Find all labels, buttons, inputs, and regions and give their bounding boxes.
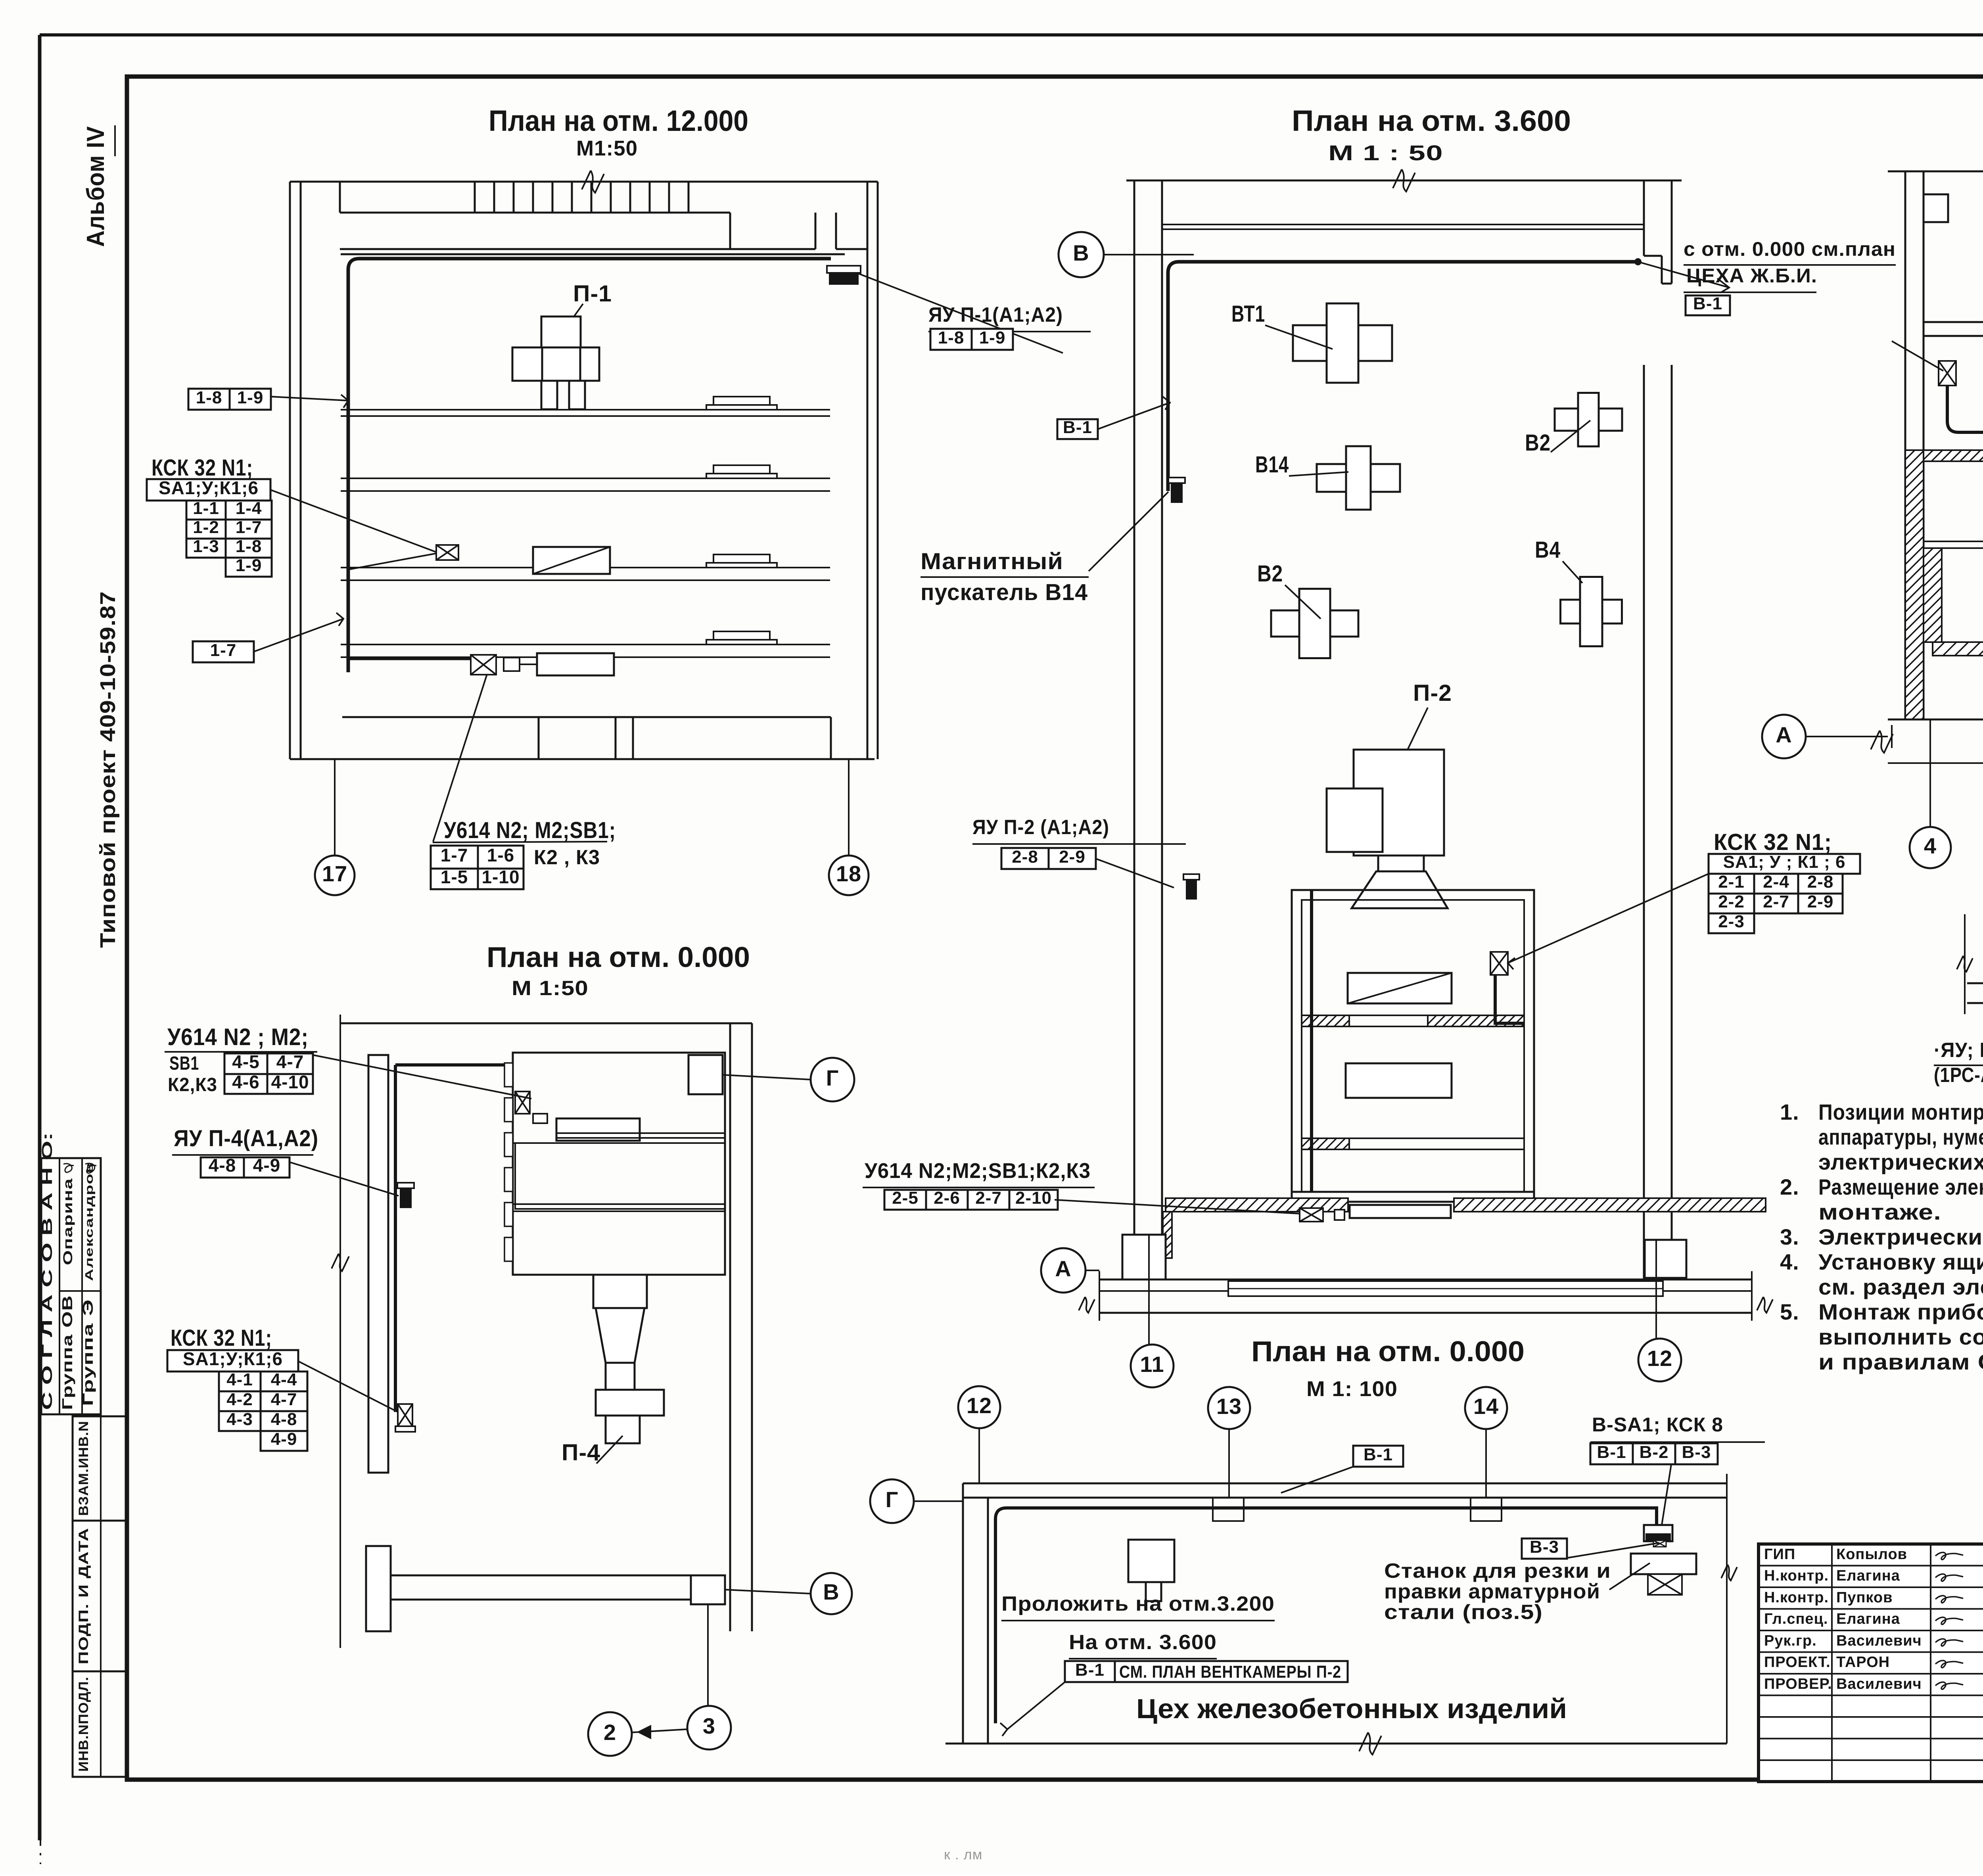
svg-text:С О Г Л А С О В А Н О:: С О Г Л А С О В А Н О: (39, 1132, 55, 1410)
svg-text:П-2: П-2 (1413, 680, 1452, 706)
svg-text:12: 12 (967, 1393, 992, 1418)
svg-text:4-3: 4-3 (226, 1410, 253, 1429)
svg-text:В14: В14 (1255, 452, 1289, 478)
svg-text:см. раздел электрооборудования: см. раздел электрооборудования. (1818, 1274, 1983, 1299)
svg-text:1-5: 1-5 (441, 867, 468, 887)
svg-text:В-2: В-2 (1640, 1442, 1669, 1462)
svg-text:К2,К3: К2,К3 (168, 1074, 217, 1095)
svg-text:Г: Г (886, 1487, 899, 1512)
svg-text:2-2: 2-2 (1718, 892, 1745, 911)
svg-text:SA1;У;К1;6: SA1;У;К1;6 (159, 478, 259, 498)
svg-text:стали (поз.5): стали (поз.5) (1384, 1601, 1543, 1624)
svg-text:5.: 5. (1780, 1299, 1799, 1324)
svg-text:Елагина: Елагина (1836, 1567, 1900, 1584)
svg-text:1.: 1. (1780, 1099, 1799, 1124)
svg-text:Н.контр.: Н.контр. (1764, 1589, 1829, 1606)
svg-text:Пупков: Пупков (1836, 1589, 1893, 1606)
svg-text:М 1: 100: М 1: 100 (1306, 1377, 1398, 1401)
svg-text:В-1: В-1 (1693, 294, 1722, 313)
svg-text:ЯУ П-1(А1;А2): ЯУ П-1(А1;А2) (928, 303, 1063, 326)
svg-text:4-8: 4-8 (209, 1155, 236, 1176)
svg-text:ПРОЕКТ.: ПРОЕКТ. (1764, 1654, 1831, 1671)
svg-text:Г: Г (826, 1065, 839, 1090)
svg-text:В-1: В-1 (1597, 1442, 1626, 1462)
svg-text:18: 18 (836, 861, 861, 886)
svg-text:электрических проводок лист: электрических проводок лист А-36 ; А-37. (1818, 1149, 1983, 1174)
svg-text:3: 3 (703, 1713, 715, 1738)
svg-text:В-1: В-1 (1063, 418, 1092, 437)
svg-text:4-6: 4-6 (232, 1072, 259, 1092)
svg-text:2-5: 2-5 (892, 1188, 919, 1208)
svg-text:2-3: 2-3 (1718, 912, 1745, 931)
svg-text:Гл.спец.: Гл.спец. (1764, 1611, 1828, 1627)
svg-text:В-3: В-3 (1682, 1442, 1711, 1462)
svg-text:13: 13 (1216, 1394, 1242, 1419)
svg-text:SA1; У ; К1 ; 6: SA1; У ; К1 ; 6 (1723, 852, 1846, 872)
svg-text:1-1: 1-1 (193, 499, 219, 518)
svg-text:В4: В4 (1535, 537, 1561, 563)
svg-text:План на отм. 0.000: План на отм. 0.000 (487, 942, 750, 973)
svg-text:Станок для резки и: Станок для резки и (1384, 1559, 1611, 1583)
svg-text:выполнить согласно строитель: выполнить согласно строительным нормам (1818, 1324, 1983, 1349)
svg-text:К2 , К3: К2 , К3 (534, 846, 600, 869)
svg-text:SB1: SB1 (169, 1053, 199, 1074)
svg-text:А: А (1776, 722, 1792, 747)
svg-text:монтаже.: монтаже. (1818, 1199, 1941, 1224)
svg-text:2-8: 2-8 (1012, 847, 1038, 867)
svg-text:4-7: 4-7 (276, 1051, 304, 1072)
svg-text:12: 12 (1647, 1346, 1672, 1371)
svg-text:ВЗАМ.ИНВ.N: ВЗАМ.ИНВ.N (76, 1421, 91, 1516)
svg-text:4-1: 4-1 (226, 1370, 253, 1389)
svg-text:Александров: Александров (83, 1162, 95, 1281)
svg-text:2-8: 2-8 (1807, 872, 1834, 892)
svg-text:П-4: П-4 (562, 1440, 600, 1466)
svg-text:В: В (823, 1579, 839, 1604)
svg-text:1-2: 1-2 (193, 518, 219, 537)
svg-text:Альбом IV: Альбом IV (82, 126, 109, 247)
svg-text:4-2: 4-2 (226, 1390, 253, 1409)
svg-text:Василевич: Василевич (1836, 1632, 1922, 1649)
svg-text:Опарина: Опарина (61, 1178, 75, 1265)
svg-text:2-9: 2-9 (1059, 847, 1085, 867)
svg-text:Позиции монтируемых приборов о: Позиции монтируемых приборов обозначение… (1818, 1099, 1983, 1124)
svg-text:4-10: 4-10 (271, 1072, 309, 1092)
svg-text:1-7: 1-7 (236, 518, 262, 537)
svg-text:17: 17 (322, 861, 347, 886)
svg-text:2-10: 2-10 (1015, 1188, 1052, 1208)
svg-text:Цех железобетонных изделий: Цех железобетонных изделий (1136, 1693, 1567, 1724)
svg-text:Копылов: Копылов (1836, 1546, 1907, 1563)
svg-text:М 1 : 50: М 1 : 50 (1328, 141, 1443, 165)
svg-text:КСК 32 N1;: КСК 32 N1; (171, 1325, 272, 1351)
svg-text:Типовой проект 409-10-59.87: Типовой проект 409-10-59.87 (96, 591, 120, 948)
svg-text:к . лм: к . лм (944, 1846, 983, 1863)
svg-text:2-7: 2-7 (975, 1188, 1002, 1208)
svg-text:ПОДП. И ДАТА: ПОДП. И ДАТА (76, 1528, 91, 1665)
svg-text:СМ. ПЛАН ВЕНТКАМЕРЫ П-2: СМ. ПЛАН ВЕНТКАМЕРЫ П-2 (1119, 1662, 1341, 1682)
svg-text:Рук.гр.: Рук.гр. (1764, 1632, 1817, 1649)
svg-text:П-1: П-1 (573, 281, 612, 307)
svg-text:4-5: 4-5 (232, 1051, 259, 1072)
svg-text:1-7: 1-7 (210, 641, 237, 660)
svg-text:ЯУ П-4(А1,А2): ЯУ П-4(А1,А2) (174, 1126, 318, 1151)
svg-text:Елагина: Елагина (1836, 1611, 1900, 1627)
svg-text:4.: 4. (1780, 1249, 1799, 1274)
svg-text:У614 N2; М2;SB1;: У614 N2; М2;SB1; (444, 817, 616, 843)
svg-text:правки арматурной: правки арматурной (1384, 1580, 1600, 1603)
svg-text:План на отм. 0.000: План на отм. 0.000 (1251, 1336, 1525, 1368)
svg-text:(1РС-А; 2РС-А): (1РС-А; 2РС-А) (1934, 1064, 1983, 1087)
svg-text:В-1: В-1 (1364, 1445, 1393, 1464)
svg-text:Василевич: Василевич (1836, 1676, 1922, 1692)
svg-text:ЦЕХА Ж.Б.И.: ЦЕХА Ж.Б.И. (1686, 265, 1817, 287)
svg-text:4-9: 4-9 (253, 1155, 280, 1176)
svg-text:1-4: 1-4 (236, 499, 262, 518)
svg-text:ПРОВЕР.: ПРОВЕР. (1764, 1676, 1832, 1692)
svg-text:SA1;У;К1;6: SA1;У;К1;6 (183, 1348, 283, 1369)
svg-text:4: 4 (1924, 833, 1937, 858)
svg-text:У614 N2 ; М2;: У614 N2 ; М2; (167, 1024, 309, 1050)
svg-text:М 1:50: М 1:50 (512, 977, 589, 1000)
svg-text:2.: 2. (1780, 1174, 1799, 1199)
svg-text:ТАРОН: ТАРОН (1836, 1654, 1890, 1671)
svg-text:1-8: 1-8 (196, 388, 222, 407)
svg-text:4-7: 4-7 (271, 1390, 297, 1409)
svg-text:ИНВ.NПОДЛ.: ИНВ.NПОДЛ. (76, 1677, 91, 1772)
svg-text:2-1: 2-1 (1718, 872, 1745, 892)
svg-text:ГИП: ГИП (1764, 1546, 1795, 1563)
svg-text:В: В (1073, 240, 1089, 265)
svg-text:2: 2 (604, 1720, 616, 1745)
svg-text:А: А (1055, 1256, 1071, 1281)
svg-text:·ЯУ; Р1; Р2: ·ЯУ; Р1; Р2 (1934, 1039, 1983, 1062)
svg-text:ВТ1: ВТ1 (1231, 301, 1265, 327)
svg-text:пускатель В14: пускатель В14 (921, 579, 1088, 605)
svg-text:КСК 32 N1;: КСК 32 N1; (1714, 829, 1832, 855)
svg-text:В2: В2 (1525, 430, 1551, 456)
svg-text:ЯУ П-2 (А1;А2): ЯУ П-2 (А1;А2) (972, 816, 1109, 839)
svg-text:1-8: 1-8 (938, 328, 965, 347)
svg-text:Монтаж приборов и средств авто: Монтаж приборов и средств автоматизации (1818, 1299, 1983, 1324)
svg-text:и правилам СН и П3. 05.07-85.: и правилам СН и П3. 05.07-85. (1818, 1349, 1983, 1374)
svg-text:В-1: В-1 (1075, 1660, 1105, 1680)
svg-text:1-3: 1-3 (193, 537, 219, 556)
svg-text:1-9: 1-9 (979, 328, 1006, 347)
svg-text:Установку ящиков ЯУ и магнитно: Установку ящиков ЯУ и магнитного пускате… (1818, 1249, 1983, 1274)
svg-text:План на отм. 12.000: План на отм. 12.000 (489, 104, 748, 137)
svg-text:2-4: 2-4 (1763, 872, 1789, 892)
svg-text:2-6: 2-6 (934, 1188, 960, 1208)
svg-text:Группа ОВ: Группа ОВ (59, 1295, 75, 1410)
svg-text:1-10: 1-10 (481, 867, 520, 887)
svg-text:План на отм. 3.600: План на отм. 3.600 (1292, 104, 1571, 137)
svg-text:Размещение электрических прово: Размещение электрических проводок уточни… (1818, 1174, 1983, 1199)
svg-text:14: 14 (1473, 1394, 1499, 1419)
svg-text:На отм. 3.600: На отм. 3.600 (1069, 1631, 1217, 1654)
svg-text:Проложить на отм.3.200: Проложить на отм.3.200 (1001, 1592, 1275, 1615)
svg-text:4-9: 4-9 (271, 1429, 297, 1449)
svg-text:с отм. 0.000 см.план: с отм. 0.000 см.план (1684, 238, 1896, 260)
svg-text:2-7: 2-7 (1763, 892, 1789, 911)
svg-text:4-4: 4-4 (271, 1370, 297, 1389)
svg-text:11: 11 (1140, 1352, 1164, 1377)
svg-text:4-8: 4-8 (271, 1410, 297, 1429)
svg-text:1-6: 1-6 (487, 845, 514, 865)
svg-text:В-SA1; КСК 8: В-SA1; КСК 8 (1592, 1414, 1723, 1436)
svg-text:КСК 32 N1;: КСК 32 N1; (152, 455, 253, 481)
svg-text:М1:50: М1:50 (576, 136, 638, 160)
svg-text:Магнитный: Магнитный (921, 549, 1063, 574)
svg-text:аппаратуры, нумерация труб соо: аппаратуры, нумерация труб соответствуют… (1818, 1124, 1983, 1149)
svg-text:1-8: 1-8 (236, 537, 262, 556)
svg-text:Электрические проводки выполни: Электрические проводки выполнить открыто… (1818, 1224, 1983, 1249)
svg-text:Группа Э: Группа Э (80, 1299, 96, 1406)
svg-text:У614 N2;М2;SB1;К2,К3: У614 N2;М2;SB1;К2,К3 (865, 1159, 1091, 1183)
svg-text:Н.контр.: Н.контр. (1764, 1567, 1829, 1584)
svg-text:1-9: 1-9 (237, 388, 264, 407)
svg-text:2-9: 2-9 (1807, 892, 1834, 911)
svg-text:1-9: 1-9 (236, 556, 262, 575)
svg-text:В2: В2 (1257, 561, 1283, 587)
svg-text:В-3: В-3 (1530, 1537, 1559, 1557)
svg-text:3.: 3. (1780, 1224, 1799, 1249)
svg-text:1-7: 1-7 (441, 845, 468, 865)
